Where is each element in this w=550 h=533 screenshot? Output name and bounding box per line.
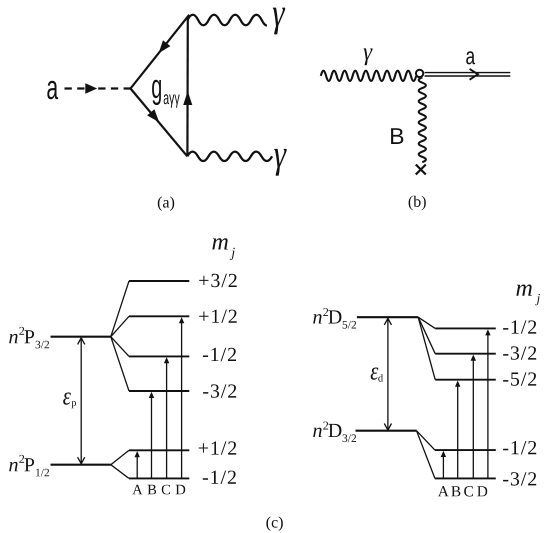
transition arrow A right shaft bbox=[442, 456, 444, 478]
n2P1/2 main level line bbox=[51, 464, 111, 466]
level n2P1/2 subscript 1/2 bbox=[36, 469, 49, 477]
magnetic field wavy line (fig b) bbox=[419, 77, 426, 162]
triangle loop right vertical edge bbox=[186, 16, 189, 156]
letter C right bbox=[464, 486, 473, 496]
sublevel label lower -1/2 bbox=[203, 471, 236, 484]
external field cross mark bbox=[416, 165, 426, 175]
fan line P3/2 to -3/2 bbox=[111, 337, 129, 391]
transition arrow D left shaft bbox=[181, 323, 183, 478]
epsilon_p arrowhead top bbox=[78, 338, 85, 345]
sublevel lower +1/2 line bbox=[129, 449, 189, 451]
letter D left bbox=[176, 485, 186, 495]
level n2P1/2 letter P bbox=[24, 458, 34, 471]
transition arrow A left head bbox=[135, 451, 140, 457]
sublevel lower -1/2 line bbox=[129, 477, 189, 479]
sublevel lower -3/2 line right bbox=[435, 477, 496, 479]
sublevel lower -1/2 line right bbox=[435, 449, 496, 451]
letter A right bbox=[438, 486, 449, 496]
sublevel label -5/2 right bbox=[503, 372, 536, 385]
m_j label left diagram (m) bbox=[212, 238, 227, 249]
fan line D3/2 to -1/2 bbox=[417, 431, 435, 450]
fan line D5/2 to -3/2 bbox=[418, 317, 435, 354]
label B (fig b) bbox=[391, 128, 403, 144]
level n2P3/2 letter P bbox=[24, 330, 34, 343]
fan line P3/2 to -1/2 bbox=[111, 337, 129, 357]
fan line P3/2 to +3/2 bbox=[111, 281, 129, 337]
incoming photon wavy line (fig b) bbox=[321, 71, 416, 81]
transition arrow C right head bbox=[471, 355, 476, 361]
sublevel -3/2 line bbox=[129, 390, 189, 392]
n2D3/2 main level line bbox=[356, 430, 417, 432]
arrowhead on axion line bbox=[85, 83, 97, 94]
level n2D5/2 superscript 2 bbox=[323, 308, 328, 316]
transition arrow D right shaft bbox=[487, 335, 489, 478]
fan line D3/2 to -3/2 bbox=[417, 431, 435, 479]
epsilon_p arrowhead bottom bbox=[78, 457, 85, 464]
n2P3/2 main level line bbox=[51, 336, 111, 338]
gamma label top right (fig a) bbox=[273, 8, 285, 35]
letter B left bbox=[148, 485, 157, 495]
vertex circle (fig b) bbox=[416, 70, 423, 77]
sublevel +3/2 line bbox=[129, 280, 189, 282]
fan line P1/2 to -1/2 bbox=[111, 465, 129, 479]
level n2P3/2 superscript 2 bbox=[19, 327, 24, 335]
level n2P3/2 subscript 3/2 bbox=[36, 341, 50, 349]
label a (fig b) bbox=[466, 51, 475, 64]
sublevel label -1/2 bbox=[203, 348, 236, 361]
sublevel label -1/2 right bbox=[503, 320, 536, 333]
letter A left bbox=[132, 485, 142, 495]
label a (axion, fig a) bbox=[47, 81, 58, 100]
arrowhead on bottom edge (pointing down-right) bbox=[147, 109, 159, 122]
transition arrow A left shaft bbox=[136, 457, 138, 479]
level n2D3/2 subscript 3/2 bbox=[343, 434, 357, 442]
transition arrow D left head bbox=[179, 317, 184, 323]
m_j subscript j left bbox=[230, 248, 235, 260]
epsilon_d arrowhead top bbox=[384, 318, 391, 325]
axion double line (fig b) bbox=[425, 73, 511, 76]
level n2P1/2 label n bbox=[9, 462, 18, 471]
transition arrow B left head bbox=[149, 392, 154, 398]
triangle loop top edge bbox=[131, 15, 190, 89]
dashed axion propagator segment 1 bbox=[65, 87, 86, 89]
transition arrow B right shaft bbox=[457, 386, 459, 478]
sublevel -3/2 line right bbox=[435, 353, 496, 355]
arrowhead on vertical edge (pointing up) bbox=[183, 91, 192, 105]
fan line P1/2 to +1/2 bbox=[111, 450, 129, 464]
coupling subscript agg bbox=[164, 94, 180, 107]
sublevel -1/2 line right bbox=[435, 327, 496, 329]
transition arrow C left head bbox=[164, 357, 169, 363]
level n2D5/2 letter D bbox=[328, 310, 341, 323]
caption (c) bbox=[266, 516, 282, 531]
fan line D5/2 to -1/2 bbox=[418, 317, 435, 328]
transition arrow B left shaft bbox=[151, 397, 153, 478]
photon wavy line top (fig a) bbox=[188, 15, 267, 26]
transition arrow B right head bbox=[455, 381, 460, 387]
sublevel label lower +1/2 bbox=[199, 441, 237, 454]
gamma label bottom right (fig a) bbox=[274, 149, 286, 176]
letter C left bbox=[162, 485, 170, 495]
sublevel label +1/2 bbox=[199, 310, 237, 323]
arrowhead on top edge (pointing down-left) bbox=[159, 40, 171, 53]
level n2P1/2 superscript 2 bbox=[19, 455, 24, 463]
level n2P3/2 label n bbox=[9, 334, 18, 343]
triangle loop bottom edge bbox=[131, 89, 188, 157]
sublevel -5/2 line right bbox=[435, 379, 496, 381]
epsilon_d label bbox=[371, 368, 379, 380]
epsilon_p double arrow shaft bbox=[80, 339, 82, 464]
sublevel label +3/2 bbox=[199, 274, 237, 287]
sublevel label -3/2 right bbox=[503, 346, 536, 359]
level n2D3/2 superscript 2 bbox=[323, 422, 328, 430]
epsilon_p subscript p bbox=[71, 401, 76, 408]
epsilon_d subscript d bbox=[378, 374, 383, 381]
coupling label g bbox=[152, 80, 161, 105]
sublevel label -3/2 bbox=[203, 384, 236, 397]
transition arrow C right shaft bbox=[472, 360, 474, 478]
level n2D5/2 label n bbox=[313, 314, 322, 323]
level n2D5/2 subscript 5/2 bbox=[343, 321, 356, 329]
sublevel label lower -1/2 right bbox=[503, 441, 536, 454]
level n2D3/2 label n bbox=[313, 428, 322, 437]
fan line D5/2 to -5/2 bbox=[418, 317, 435, 380]
caption (a) bbox=[158, 196, 174, 211]
gamma label (fig b) bbox=[364, 48, 373, 65]
transition arrow D right head bbox=[485, 329, 490, 335]
photon wavy line bottom (fig a) bbox=[187, 152, 272, 161]
fan line P3/2 to +1/2 bbox=[111, 316, 129, 336]
sublevel -1/2 line bbox=[129, 355, 189, 357]
m_j subscript j right bbox=[535, 294, 540, 305]
letter B right bbox=[451, 486, 460, 496]
sublevel +1/2 line bbox=[129, 315, 189, 317]
transition arrow A right head bbox=[441, 451, 446, 457]
transition arrow C left shaft bbox=[166, 363, 168, 478]
arrow chevron on axion line (fig b) bbox=[470, 69, 478, 80]
epsilon_p label bbox=[63, 393, 71, 405]
dashed axion propagator segment 2 bbox=[98, 87, 131, 89]
letter D right bbox=[477, 486, 487, 496]
n2D5/2 main level line bbox=[357, 316, 418, 318]
sublevel label lower -3/2 right bbox=[503, 472, 536, 485]
epsilon_d arrowhead bottom bbox=[384, 424, 391, 431]
caption (b) bbox=[409, 196, 426, 211]
epsilon_d double arrow shaft bbox=[387, 319, 389, 429]
m_j label right diagram (m) bbox=[516, 285, 531, 296]
level n2D3/2 letter D bbox=[328, 424, 341, 437]
